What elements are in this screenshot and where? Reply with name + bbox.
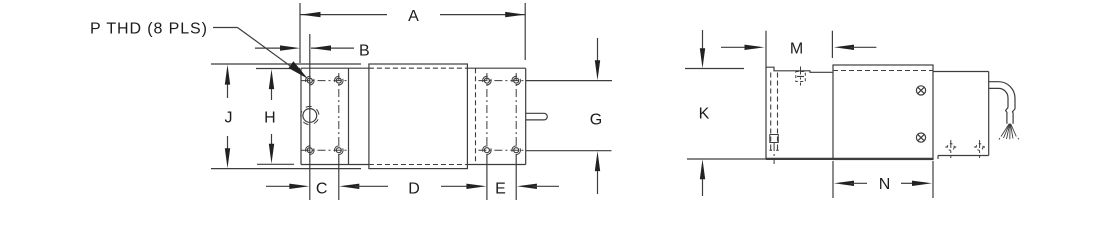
dimension M arrow left [721, 45, 765, 50]
hole row centerline left bottom [302, 149, 348, 151]
svg-text:E: E [495, 181, 506, 198]
cover screw bottom [916, 133, 925, 142]
hidden threaded hole 1 [945, 140, 956, 158]
dimension A line left [301, 12, 388, 17]
hidden hole tick left section [770, 143, 779, 164]
dimension G arrow down [595, 38, 600, 80]
dimension E arrow right [517, 184, 559, 189]
threaded hole top (P) [796, 67, 806, 86]
dimension J arrow down [225, 136, 230, 168]
dimension G arrow up [595, 151, 600, 194]
cable break [1006, 108, 1015, 124]
hole row centerline left top [302, 80, 348, 82]
left end block inner edge [348, 68, 350, 164]
hidden bore lines left section [771, 73, 778, 153]
label C [316, 181, 328, 198]
extension line M right [831, 31, 833, 58]
dimension C/D shared arrow [339, 184, 388, 189]
screw hole 5 [481, 75, 492, 86]
label B [359, 43, 370, 60]
dimension H arrow down [269, 134, 274, 164]
center threaded hole [298, 103, 322, 127]
body bottom edge thick [766, 158, 933, 160]
svg-text:H: H [264, 110, 276, 127]
svg-text:B: B [359, 43, 370, 60]
dimension A line right [440, 12, 525, 17]
svg-text:C: C [316, 181, 328, 198]
hole column centerline x339 [338, 73, 340, 200]
load cell body (left view) [301, 68, 526, 164]
leader line P THD [213, 28, 308, 79]
extension line N right [932, 161, 934, 198]
svg-text:G: G [590, 112, 602, 129]
label J [225, 110, 233, 127]
svg-text:N: N [879, 176, 891, 193]
extension line A right [524, 3, 526, 60]
hole row centerline right bottom [478, 149, 524, 151]
screw hole 7 [510, 75, 521, 86]
top extension line (H) [256, 68, 300, 70]
dimension H arrow up [269, 69, 274, 100]
dimension N arrow left [834, 181, 867, 186]
bottom ground line [687, 158, 766, 160]
dimension B arrow left [255, 45, 300, 50]
dimension C arrow left [266, 184, 309, 189]
protective cover (left view) [369, 64, 468, 169]
label P THD (8 PLS) [90, 21, 208, 38]
label D [408, 181, 420, 198]
load button rod [526, 113, 548, 120]
bottom extension line (H) [257, 163, 294, 165]
label G [590, 112, 602, 129]
protective cover (right view) [833, 65, 933, 160]
hole column centerline x487 [486, 73, 488, 200]
label M [790, 40, 803, 57]
cable wires [999, 124, 1019, 140]
extension line G top [526, 80, 612, 82]
screw hole 2 [304, 144, 315, 155]
hidden threaded hole 2 [974, 140, 985, 158]
screw hole 1 [304, 75, 315, 86]
hidden pocket left section [770, 135, 779, 143]
dimension B arrow right [311, 45, 354, 50]
screw hole 8 [510, 144, 521, 155]
right end block hidden edge [475, 68, 477, 164]
body right section [933, 72, 989, 159]
screw hole 6 [481, 144, 492, 155]
screw hole 4 [333, 144, 344, 155]
svg-text:J: J [225, 110, 233, 127]
svg-text:M: M [790, 40, 803, 57]
extension line M left / body end [765, 31, 767, 159]
label A [408, 8, 419, 25]
hole row centerline right top [478, 80, 524, 82]
label K [699, 106, 710, 123]
cover screw top [916, 86, 925, 95]
extension line N left [832, 161, 834, 198]
svg-text:A: A [408, 8, 419, 25]
hidden body edges behind cover [369, 68, 468, 164]
dimension K arrow down [700, 30, 705, 68]
bottom extension line (J) [211, 168, 361, 170]
dimension N arrow right [901, 181, 932, 186]
label E [495, 181, 506, 198]
svg-text:K: K [699, 106, 710, 123]
extension line A left [299, 3, 301, 63]
top extension line (J) [211, 63, 361, 65]
dimension D/E shared arrow [441, 184, 486, 189]
body top profile left section [766, 67, 833, 72]
hidden body edges behind cover (right view) [833, 70, 933, 72]
label H [264, 110, 276, 127]
extension line K top [685, 68, 744, 70]
cable elbow [989, 82, 1015, 109]
label N [879, 176, 891, 193]
dimension M arrow right [834, 45, 876, 50]
extension line B (hole centerline) [309, 34, 311, 200]
svg-text:D: D [408, 181, 420, 198]
screw hole 3 [333, 75, 344, 86]
dimension K arrow up [700, 159, 705, 196]
svg-text:P THD (8 PLS): P THD (8 PLS) [90, 21, 208, 38]
extension line G bottom [526, 150, 612, 152]
dimension J arrow up [225, 65, 230, 98]
hole column centerline x516 [515, 73, 517, 200]
